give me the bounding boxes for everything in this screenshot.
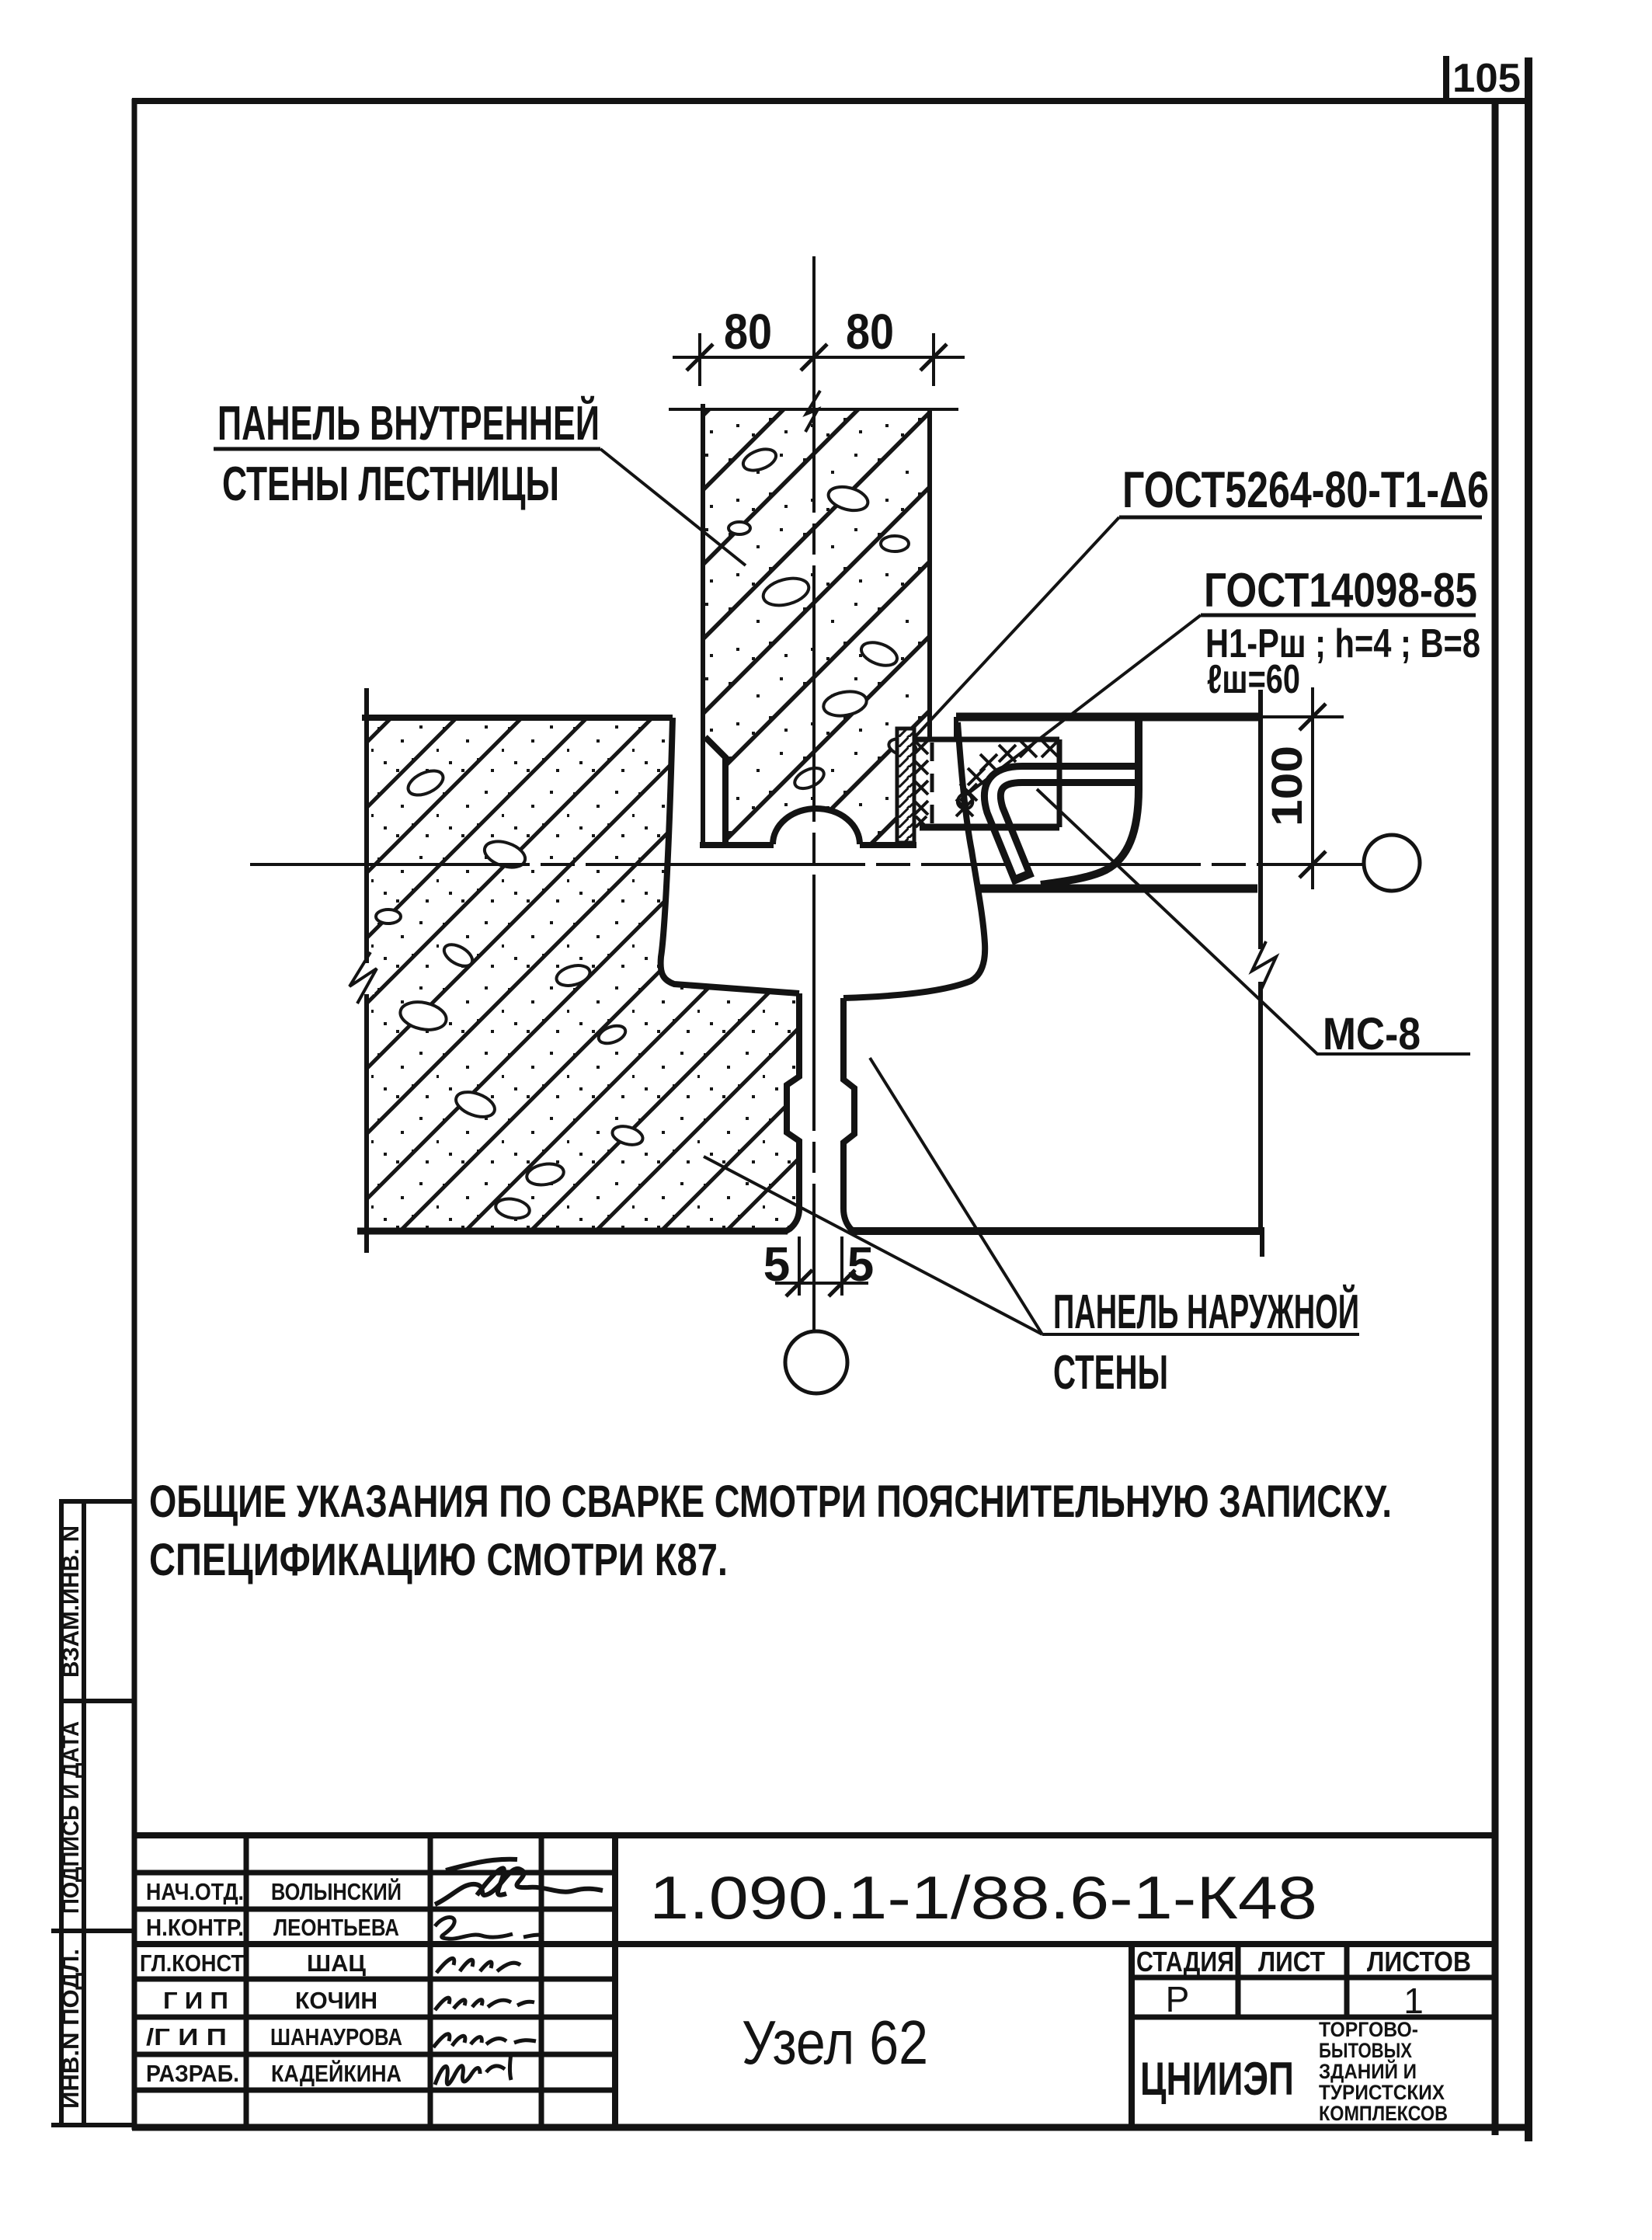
dim 100 ticks: [1299, 704, 1326, 878]
svg-text:ЗДАНИЙ И: ЗДАНИЙ И: [1319, 2059, 1417, 2083]
svg-text:ЛИСТ: ЛИСТ: [1258, 1946, 1325, 1977]
stamp row line 3: [134, 1907, 615, 1912]
lower right panel top edge: [978, 885, 1257, 893]
dim 5 ext lines: [799, 1237, 842, 1296]
stamp row line 8: [134, 2088, 615, 2093]
svg-text:СТЕНЫ ЛЕСТНИЦЫ: СТЕНЫ ЛЕСТНИЦЫ: [222, 457, 559, 511]
svg-text:НАЧ.ОТД.: НАЧ.ОТД.: [146, 1878, 244, 1905]
left column divider mid: [59, 1699, 137, 1703]
stamp col line c: [539, 1835, 544, 2127]
svg-text:105: 105: [1452, 56, 1521, 101]
svg-text:ГОСТ14098-85: ГОСТ14098-85: [1204, 564, 1477, 617]
svg-text:ИНВ.N ПОДЛ.: ИНВ.N ПОДЛ.: [58, 1949, 84, 2109]
right edge overshoot: [1260, 1227, 1264, 1257]
stamp row line 2: [134, 1870, 615, 1876]
svg-text:ℓш=60: ℓш=60: [1207, 657, 1300, 702]
stamp row line 6: [134, 2015, 615, 2020]
GOST14098 leader: [968, 615, 1201, 794]
weld blob: [958, 793, 972, 809]
right panel top edge: [956, 713, 1261, 722]
signature leontyeva: [435, 1918, 544, 1939]
GOST5264 leader: [914, 517, 1119, 738]
dim 5 ticks: [786, 1270, 855, 1296]
panel notch chamfer: [705, 737, 725, 843]
vertical panel hatch (панель внутренней стены): [702, 409, 930, 843]
left column divider low: [51, 1929, 137, 1933]
svg-text:Р: Р: [1166, 1979, 1190, 2019]
dim 80 line: [673, 356, 965, 359]
svg-text:ОБЩИЕ УКАЗАНИЯ ПО СВАРКЕ СМОТР: ОБЩИЕ УКАЗАНИЯ ПО СВАРКЕ СМОТРИ ПОЯСНИТЕ…: [149, 1477, 1392, 1527]
panel bottom semicircle: [773, 809, 860, 844]
svg-text:ТОРГОВО-: ТОРГОВО-: [1319, 2018, 1418, 2041]
svg-text:1.090.1-1/88.6-1-К48: 1.090.1-1/88.6-1-К48: [649, 1863, 1317, 1932]
signature shanaurova: [433, 2034, 536, 2047]
list col line: [1344, 1944, 1350, 2017]
weld x marks at anchor bend: [956, 740, 1059, 816]
left block top edge: [362, 715, 673, 721]
pocket top line: [914, 737, 1059, 743]
frame top border: [132, 98, 1531, 104]
panel left edge: [701, 404, 705, 847]
МС-8 channel plate: [1041, 715, 1139, 885]
signature kadeykina: [435, 2054, 511, 2085]
GOST5264 underline: [1119, 516, 1482, 520]
break gap left edge: [359, 963, 374, 994]
left column bottom: [51, 2123, 137, 2127]
stamp top line: [134, 1832, 1493, 1838]
top edge extension: [1261, 715, 1344, 718]
dim 5 line: [775, 1282, 868, 1285]
vertical axis line: [812, 256, 816, 1331]
break zigzag right edge: [1252, 941, 1276, 993]
leader to panel: [600, 449, 746, 565]
dim 100 line: [1311, 687, 1314, 889]
pocket bottom: [920, 824, 1059, 831]
panel bottom left: [700, 842, 774, 848]
svg-text:Г И П: Г И П: [163, 1987, 228, 2014]
left block bottom edge: [357, 1228, 788, 1235]
anchor loop МС-8 anchor: [993, 774, 1139, 881]
frame right border inner: [1492, 103, 1499, 2135]
left block right edge and shelf: [661, 718, 799, 993]
hidden edge dashes: [930, 743, 934, 830]
svg-text:КОМПЛЕКСОВ: КОМПЛЕКСОВ: [1319, 2102, 1448, 2125]
panel bottom right: [860, 842, 916, 848]
stamp row line 4 full: [134, 1941, 1493, 1947]
svg-text:1: 1: [1403, 1981, 1424, 2021]
svg-text:КОЧИН: КОЧИН: [295, 1987, 377, 2014]
svg-text:Узел 62: Узел 62: [742, 2008, 928, 2077]
break gap right edge: [1253, 949, 1268, 982]
svg-text:5: 5: [847, 1238, 874, 1292]
weld strip: [897, 729, 914, 843]
svg-text:КАДЕЙКИНА: КАДЕЙКИНА: [271, 2059, 402, 2087]
dim 80 ext line left: [698, 333, 701, 386]
svg-text:ЛИСТОВ: ЛИСТОВ: [1367, 1946, 1471, 1977]
naruzhnoy leader horizontal: [1042, 1333, 1359, 1336]
stem right edge: [843, 998, 856, 1231]
frame right border outer: [1525, 57, 1532, 2141]
svg-text:ЛЕОНТЬЕВА: ЛЕОНТЬЕВА: [273, 1914, 399, 1941]
axis circle bottom: [785, 1331, 847, 1393]
svg-text:ПАНЕЛЬ ВНУТРЕННЕЙ: ПАНЕЛЬ ВНУТРЕННЕЙ: [217, 396, 600, 450]
lower right panel right edge: [1258, 690, 1263, 1227]
stamp col line e: [1129, 1944, 1135, 2127]
stadia col line: [1236, 1944, 1241, 2017]
stamp col line b: [428, 1835, 433, 2127]
page number box left line: [1443, 56, 1449, 101]
svg-text:ГОСТ5264-80-Т1-Δ6: ГОСТ5264-80-Т1-Δ6: [1122, 461, 1489, 518]
svg-text:ШАЦ: ШАЦ: [307, 1950, 366, 1977]
axis circle right: [1364, 835, 1420, 891]
stadia value underline: [1132, 2015, 1493, 2020]
signature shats: [436, 1958, 520, 1973]
GOST14098 underline: [1201, 614, 1476, 617]
pebbles vertical panel: [729, 445, 918, 792]
svg-text:ЦНИИЭП: ЦНИИЭП: [1140, 2053, 1294, 2105]
panel top break line: [669, 408, 958, 411]
svg-text:ВЗАМ.ИНВ. N: ВЗАМ.ИНВ. N: [58, 1525, 84, 1678]
svg-text:СТЕНЫ: СТЕНЫ: [1053, 1346, 1168, 1400]
frame bottom border: [132, 2124, 1531, 2131]
break zigzag left edge: [350, 952, 377, 1003]
svg-text:РАЗРАБ.: РАЗРАБ.: [146, 2060, 239, 2087]
svg-text:ТУРИСТСКИХ: ТУРИСТСКИХ: [1319, 2081, 1445, 2104]
svg-text:80: 80: [846, 304, 894, 360]
stamp row line 7: [134, 2052, 615, 2057]
panel top break zigzag: [805, 391, 820, 432]
stamp row line 5: [134, 1977, 615, 1982]
left block hatch (внешняя стена, верх слева): [367, 718, 799, 1231]
frame left border: [132, 99, 137, 2130]
left column inner vertical: [82, 1501, 86, 2125]
dim 80 ticks: [687, 344, 947, 370]
naruzhnoy leader branch: [870, 1058, 1042, 1334]
svg-text:ГЛ.КОНСТ: ГЛ.КОНСТ: [140, 1950, 244, 1977]
svg-text:БЫТОВЫХ: БЫТОВЫХ: [1319, 2039, 1412, 2062]
svg-text:ШАНАУРОВА: ШАНАУРОВА: [270, 2023, 402, 2050]
stadia header underline: [1132, 1975, 1493, 1981]
svg-text:ПАНЕЛЬ НАРУЖНОЙ: ПАНЕЛЬ НАРУЖНОЙ: [1053, 1285, 1359, 1339]
svg-text:/Г И П: /Г И П: [146, 2023, 227, 2050]
stamp col line a: [244, 1835, 249, 2127]
pocket left stub: [954, 717, 958, 739]
blob right edge: [843, 722, 985, 998]
lower right panel bottom edge: [851, 1227, 1262, 1235]
naruzhnoy leader long: [704, 1157, 1042, 1334]
svg-text:ПОДПИСЬ И ДАТА: ПОДПИСЬ И ДАТА: [58, 1721, 84, 1914]
left column divider top: [59, 1499, 137, 1504]
pocket right wall: [1057, 739, 1062, 827]
svg-text:100: 100: [1262, 746, 1311, 826]
horizontal axis line: [250, 863, 1364, 866]
pebbles left block: [376, 766, 645, 1221]
label underline: [214, 447, 600, 451]
MC-8 leader: [1037, 789, 1470, 1054]
left column outer vertical: [59, 1501, 64, 2125]
svg-text:5: 5: [763, 1238, 790, 1292]
panel right edge: [927, 409, 932, 739]
dim 80 ext line right: [932, 333, 935, 386]
svg-text:МС-8: МС-8: [1323, 1009, 1421, 1059]
svg-text:ВОЛЫНСКИЙ: ВОЛЫНСКИЙ: [271, 1877, 402, 1905]
stem left edge: [786, 993, 799, 1231]
signature volynskiy: [435, 1869, 603, 1904]
svg-text:Н.КОНТР.: Н.КОНТР.: [146, 1914, 244, 1941]
stamp col line d: [612, 1835, 618, 2127]
weld x marks at strip: [914, 740, 928, 827]
svg-text:СТАДИЯ: СТАДИЯ: [1136, 1946, 1234, 1977]
signature kochin: [435, 1998, 534, 2010]
svg-text:80: 80: [724, 304, 772, 360]
svg-text:СПЕЦИФИКАЦИЮ СМОТРИ К87.: СПЕЦИФИКАЦИЮ СМОТРИ К87.: [149, 1535, 728, 1585]
left block left edge: [364, 688, 369, 1253]
